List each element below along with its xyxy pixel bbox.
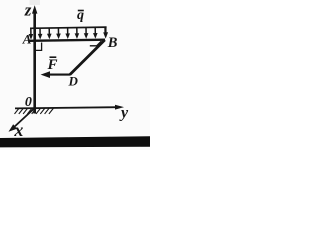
svg-text:0: 0: [25, 95, 32, 110]
svg-text:D: D: [68, 74, 79, 89]
svg-text:y: y: [119, 105, 129, 122]
svg-text:A: A: [22, 32, 32, 47]
svg-text:z: z: [24, 0, 32, 19]
svg-text:F: F: [47, 57, 58, 73]
svg-text:B: B: [107, 35, 118, 51]
svg-text:x: x: [13, 120, 23, 140]
